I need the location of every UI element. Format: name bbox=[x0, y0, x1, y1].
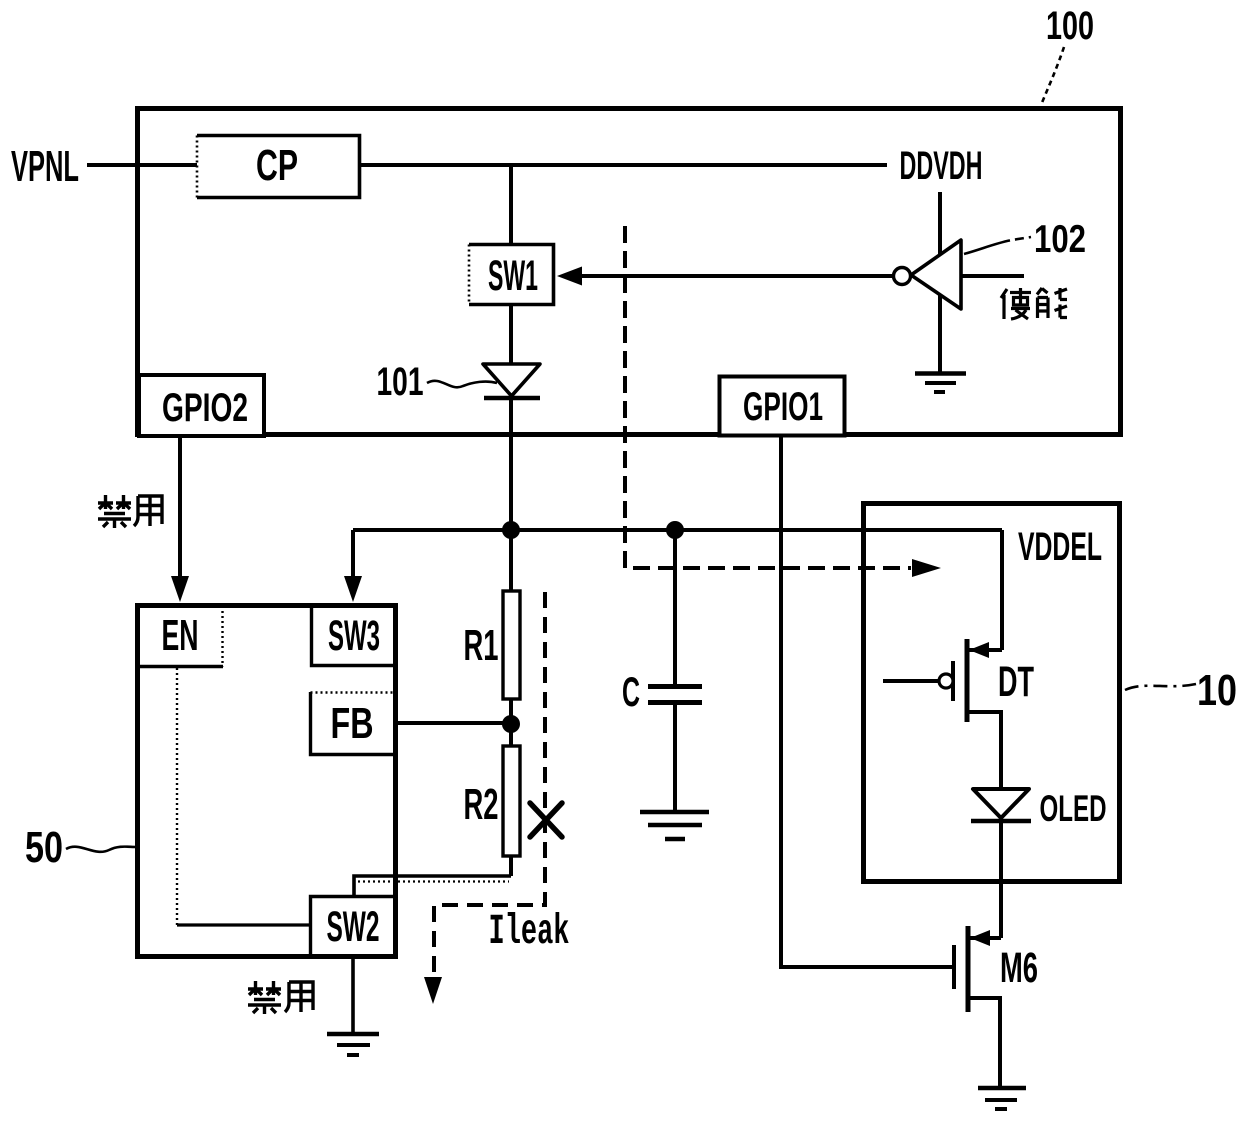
box FB bbox=[311, 692, 396, 755]
capacitor C plates bbox=[648, 687, 702, 703]
arrowhead of dashed enable net bbox=[912, 559, 941, 577]
svg-text:R2: R2 bbox=[464, 780, 499, 829]
source connection with arrow bbox=[967, 648, 1002, 652]
gate wire bbox=[883, 679, 939, 683]
wire SW1 to diode 101 bbox=[509, 305, 513, 399]
wire VDDEL vertical bbox=[1000, 530, 1004, 650]
svg-text:GPIO2: GPIO2 bbox=[162, 386, 248, 430]
wire node B through R2 bbox=[509, 724, 513, 876]
label 禁用 (disable) lower bbox=[248, 981, 313, 1014]
wire inverter output to SW1 bbox=[580, 274, 893, 278]
resistor R1 bbox=[503, 591, 520, 699]
source connection bbox=[968, 998, 1000, 1086]
wire CP line down to SW1 bbox=[509, 165, 513, 244]
channel bbox=[965, 639, 970, 722]
svg-text:DT: DT bbox=[998, 658, 1034, 706]
leader for 10 bbox=[1125, 684, 1196, 690]
arrowhead into SW3 bbox=[344, 576, 362, 602]
svg-text:101: 101 bbox=[377, 360, 424, 404]
node A junction dot bbox=[502, 521, 520, 539]
svg-text:CP: CP bbox=[256, 141, 298, 190]
wire R2 bottom to SW2 bbox=[354, 876, 511, 895]
wire down to SW3 bbox=[351, 530, 355, 580]
box GPIO1 bbox=[720, 377, 845, 436]
svg-text:10: 10 bbox=[1197, 666, 1237, 715]
drain connection bbox=[967, 712, 1001, 789]
svg-text:SW3: SW3 bbox=[328, 612, 380, 660]
inverter 102 bbox=[894, 192, 1025, 372]
arrowhead Ileak bbox=[424, 977, 442, 1004]
label 禁用 (disable) upper bbox=[98, 495, 162, 528]
box SW1 bbox=[469, 245, 554, 305]
svg-text:VDDEL: VDDEL bbox=[1018, 525, 1102, 569]
svg-text:EN: EN bbox=[162, 611, 199, 660]
diode 101 bbox=[483, 364, 540, 398]
svg-text:SW2: SW2 bbox=[327, 903, 380, 951]
svg-text:OLED: OLED bbox=[1040, 788, 1107, 829]
gate bar bbox=[952, 945, 956, 989]
ground under inverter bbox=[915, 374, 966, 393]
dashed Ileak path bbox=[434, 592, 545, 978]
node C junction dot bbox=[666, 521, 684, 539]
box SW2 bbox=[311, 897, 396, 958]
svg-text:FB: FB bbox=[331, 699, 374, 748]
svg-text:DDVDH: DDVDH bbox=[900, 144, 983, 188]
box EN bbox=[140, 606, 223, 667]
main horizontal net at y=530 bbox=[353, 528, 1002, 532]
leader for 100 bbox=[1041, 47, 1064, 105]
wire node A to R1 and R1 to node B bbox=[509, 530, 513, 724]
svg-text:50: 50 bbox=[25, 823, 63, 872]
svg-text:SW1: SW1 bbox=[488, 252, 538, 300]
block 50 outline bbox=[138, 606, 396, 957]
wire DDVDH down through inverter bbox=[938, 192, 942, 372]
wire OLED to M6 bbox=[999, 822, 1003, 938]
svg-text:VPNL: VPNL bbox=[11, 142, 79, 191]
arrowhead into SW1 bbox=[557, 267, 582, 286]
wire GPIO2 down to EN bbox=[178, 437, 182, 580]
dotted companion line under R2-SW2 wire bbox=[358, 880, 509, 882]
capacitor C wire upper bbox=[673, 530, 677, 684]
resistor R2 bbox=[503, 746, 520, 856]
leader for 101 bbox=[427, 381, 497, 387]
X mark (blocked path) bbox=[530, 803, 562, 837]
wire CP to DDVDH bbox=[360, 163, 887, 167]
svg-text:M6: M6 bbox=[1000, 944, 1038, 992]
drain connection with arrow bbox=[968, 936, 1001, 940]
leader for 102 bbox=[964, 237, 1031, 254]
box SW3 bbox=[312, 606, 396, 666]
internal dotted net EN to SW2 bbox=[176, 668, 178, 925]
svg-text:100: 100 bbox=[1046, 4, 1094, 48]
ground under M6 bbox=[978, 1088, 1026, 1109]
svg-text:102: 102 bbox=[1034, 218, 1086, 261]
wire SW2 to ground bbox=[351, 957, 355, 1033]
wire diode down to node A bbox=[509, 399, 513, 532]
ground under SW2 bbox=[327, 1034, 379, 1055]
diode OLED bbox=[971, 788, 1107, 829]
internal wire to SW2 bbox=[177, 923, 310, 926]
svg-text:Ileak: Ileak bbox=[489, 907, 570, 956]
box GPIO2 bbox=[139, 375, 264, 436]
svg-text:R1: R1 bbox=[464, 621, 499, 670]
wire FB to node B bbox=[397, 721, 511, 725]
box CP bbox=[197, 136, 360, 198]
svg-text:GPIO1: GPIO1 bbox=[743, 385, 823, 429]
dashed enable net (vertical + horizontal into block 10) bbox=[625, 226, 911, 568]
inverter triangle bbox=[911, 240, 961, 309]
capacitor C wire lower bbox=[673, 705, 677, 811]
arrowhead into EN bbox=[171, 576, 189, 602]
transistor M6 (NMOS) bbox=[954, 926, 1038, 1086]
channel bbox=[966, 926, 971, 1012]
wire VPNL to CP bbox=[87, 163, 197, 167]
leader for 50 bbox=[66, 847, 136, 852]
block 100 (power IC outline) bbox=[138, 109, 1121, 435]
gate bar bbox=[951, 661, 955, 701]
transistor DT (PMOS) bbox=[883, 639, 1034, 789]
block 10 outline bbox=[864, 504, 1120, 882]
node B junction dot (FB tap) bbox=[502, 715, 520, 733]
wire GPIO1 down to M6 gate bbox=[781, 437, 952, 967]
ground under C bbox=[640, 812, 709, 839]
inverter bubble bbox=[894, 268, 911, 285]
label 使能 (enable) bbox=[1001, 288, 1067, 319]
gate bubble bbox=[939, 674, 953, 688]
svg-text:C: C bbox=[622, 668, 640, 715]
wire inverter input bbox=[961, 274, 1024, 278]
